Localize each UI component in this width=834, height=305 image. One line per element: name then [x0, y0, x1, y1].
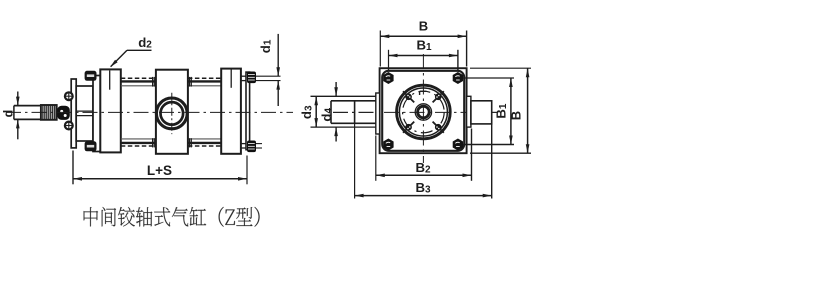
svg-text:d: d: [2, 110, 16, 118]
svg-text:B: B: [419, 19, 428, 34]
svg-text:L+S: L+S: [147, 163, 172, 178]
svg-text:B: B: [508, 111, 523, 120]
